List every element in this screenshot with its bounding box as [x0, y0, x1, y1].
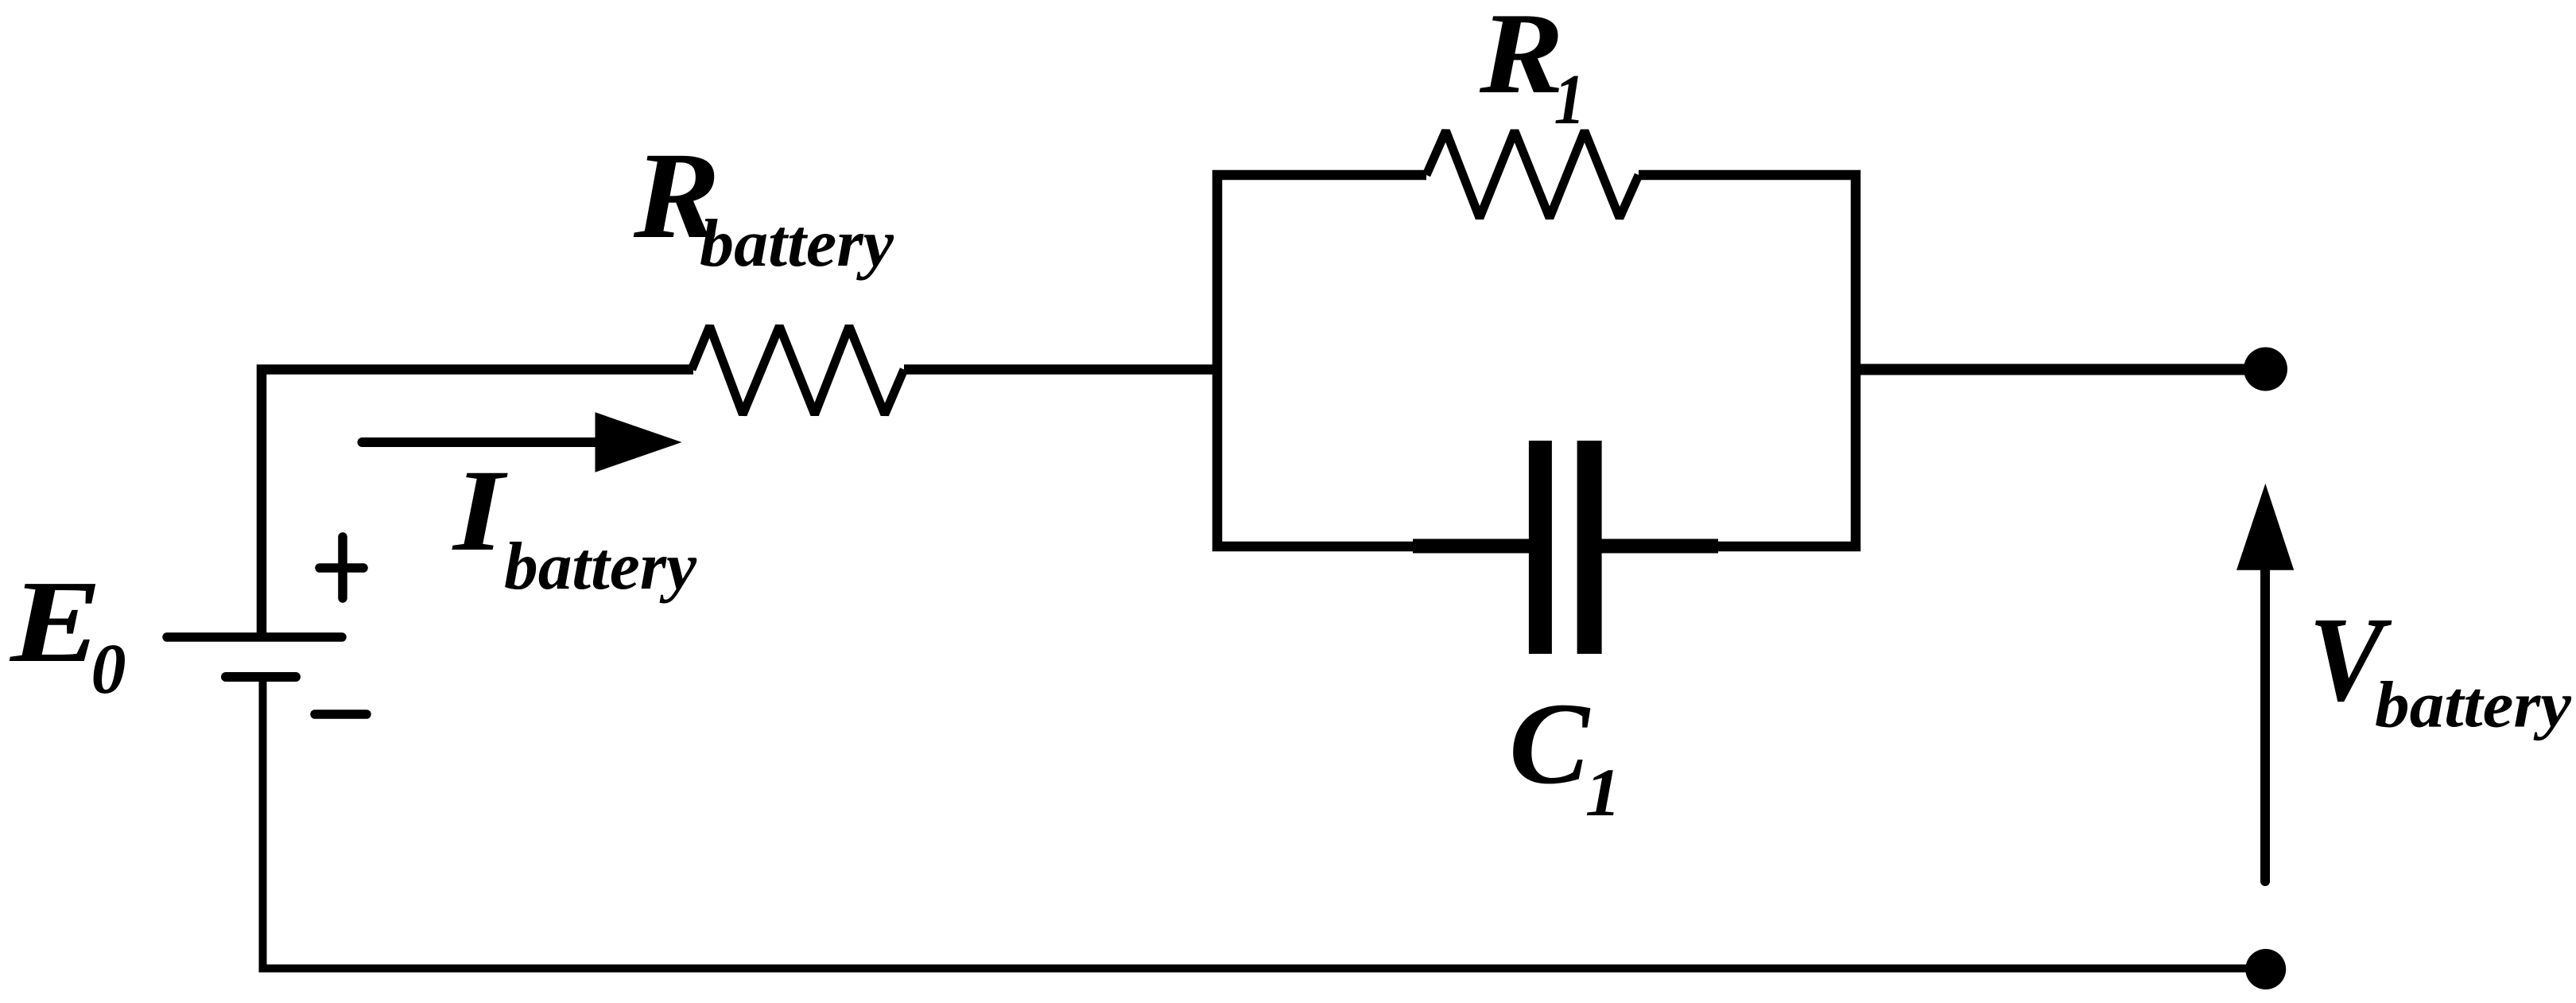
svg-text:I: I — [452, 445, 509, 575]
plus polarity mark — [320, 537, 363, 598]
wire: box left side with top/bottom stubs — [1217, 175, 1529, 546]
wire: box to positive output terminal — [1856, 364, 2265, 375]
capacitor C1 right plate — [1577, 441, 1602, 654]
svg-text:1: 1 — [1585, 754, 1621, 830]
wire: battery + up and right to R_battery — [262, 370, 693, 638]
node: negative output terminal — [2245, 949, 2286, 989]
resistor R1 — [1426, 131, 1639, 219]
battery short plate (-) — [226, 672, 296, 682]
svg-text:C: C — [1509, 678, 1591, 808]
svg-text:0: 0 — [91, 630, 126, 709]
battery long plate (+) — [167, 632, 342, 642]
voltage arrow V_battery — [2237, 484, 2294, 881]
svg-text:battery: battery — [700, 207, 894, 281]
svg-text:E: E — [9, 557, 102, 687]
node: positive output terminal — [2244, 348, 2287, 391]
wire: R_battery to parallel box — [904, 364, 1217, 375]
capacitor C1 thick leads — [1413, 539, 1530, 554]
minus polarity mark — [315, 709, 367, 719]
resistor R_battery — [692, 326, 904, 414]
svg-text:battery: battery — [2375, 667, 2572, 741]
current arrow I_battery — [363, 412, 682, 472]
capacitor C1 left plate — [1529, 441, 1552, 654]
svg-text:1: 1 — [1554, 60, 1585, 139]
wire: box right side — [1602, 175, 1856, 546]
wire: battery - down and right to negative output terminal — [263, 677, 2267, 969]
svg-text:battery: battery — [504, 530, 697, 604]
svg-text:R: R — [1479, 0, 1564, 118]
battery E0 — [167, 637, 342, 677]
